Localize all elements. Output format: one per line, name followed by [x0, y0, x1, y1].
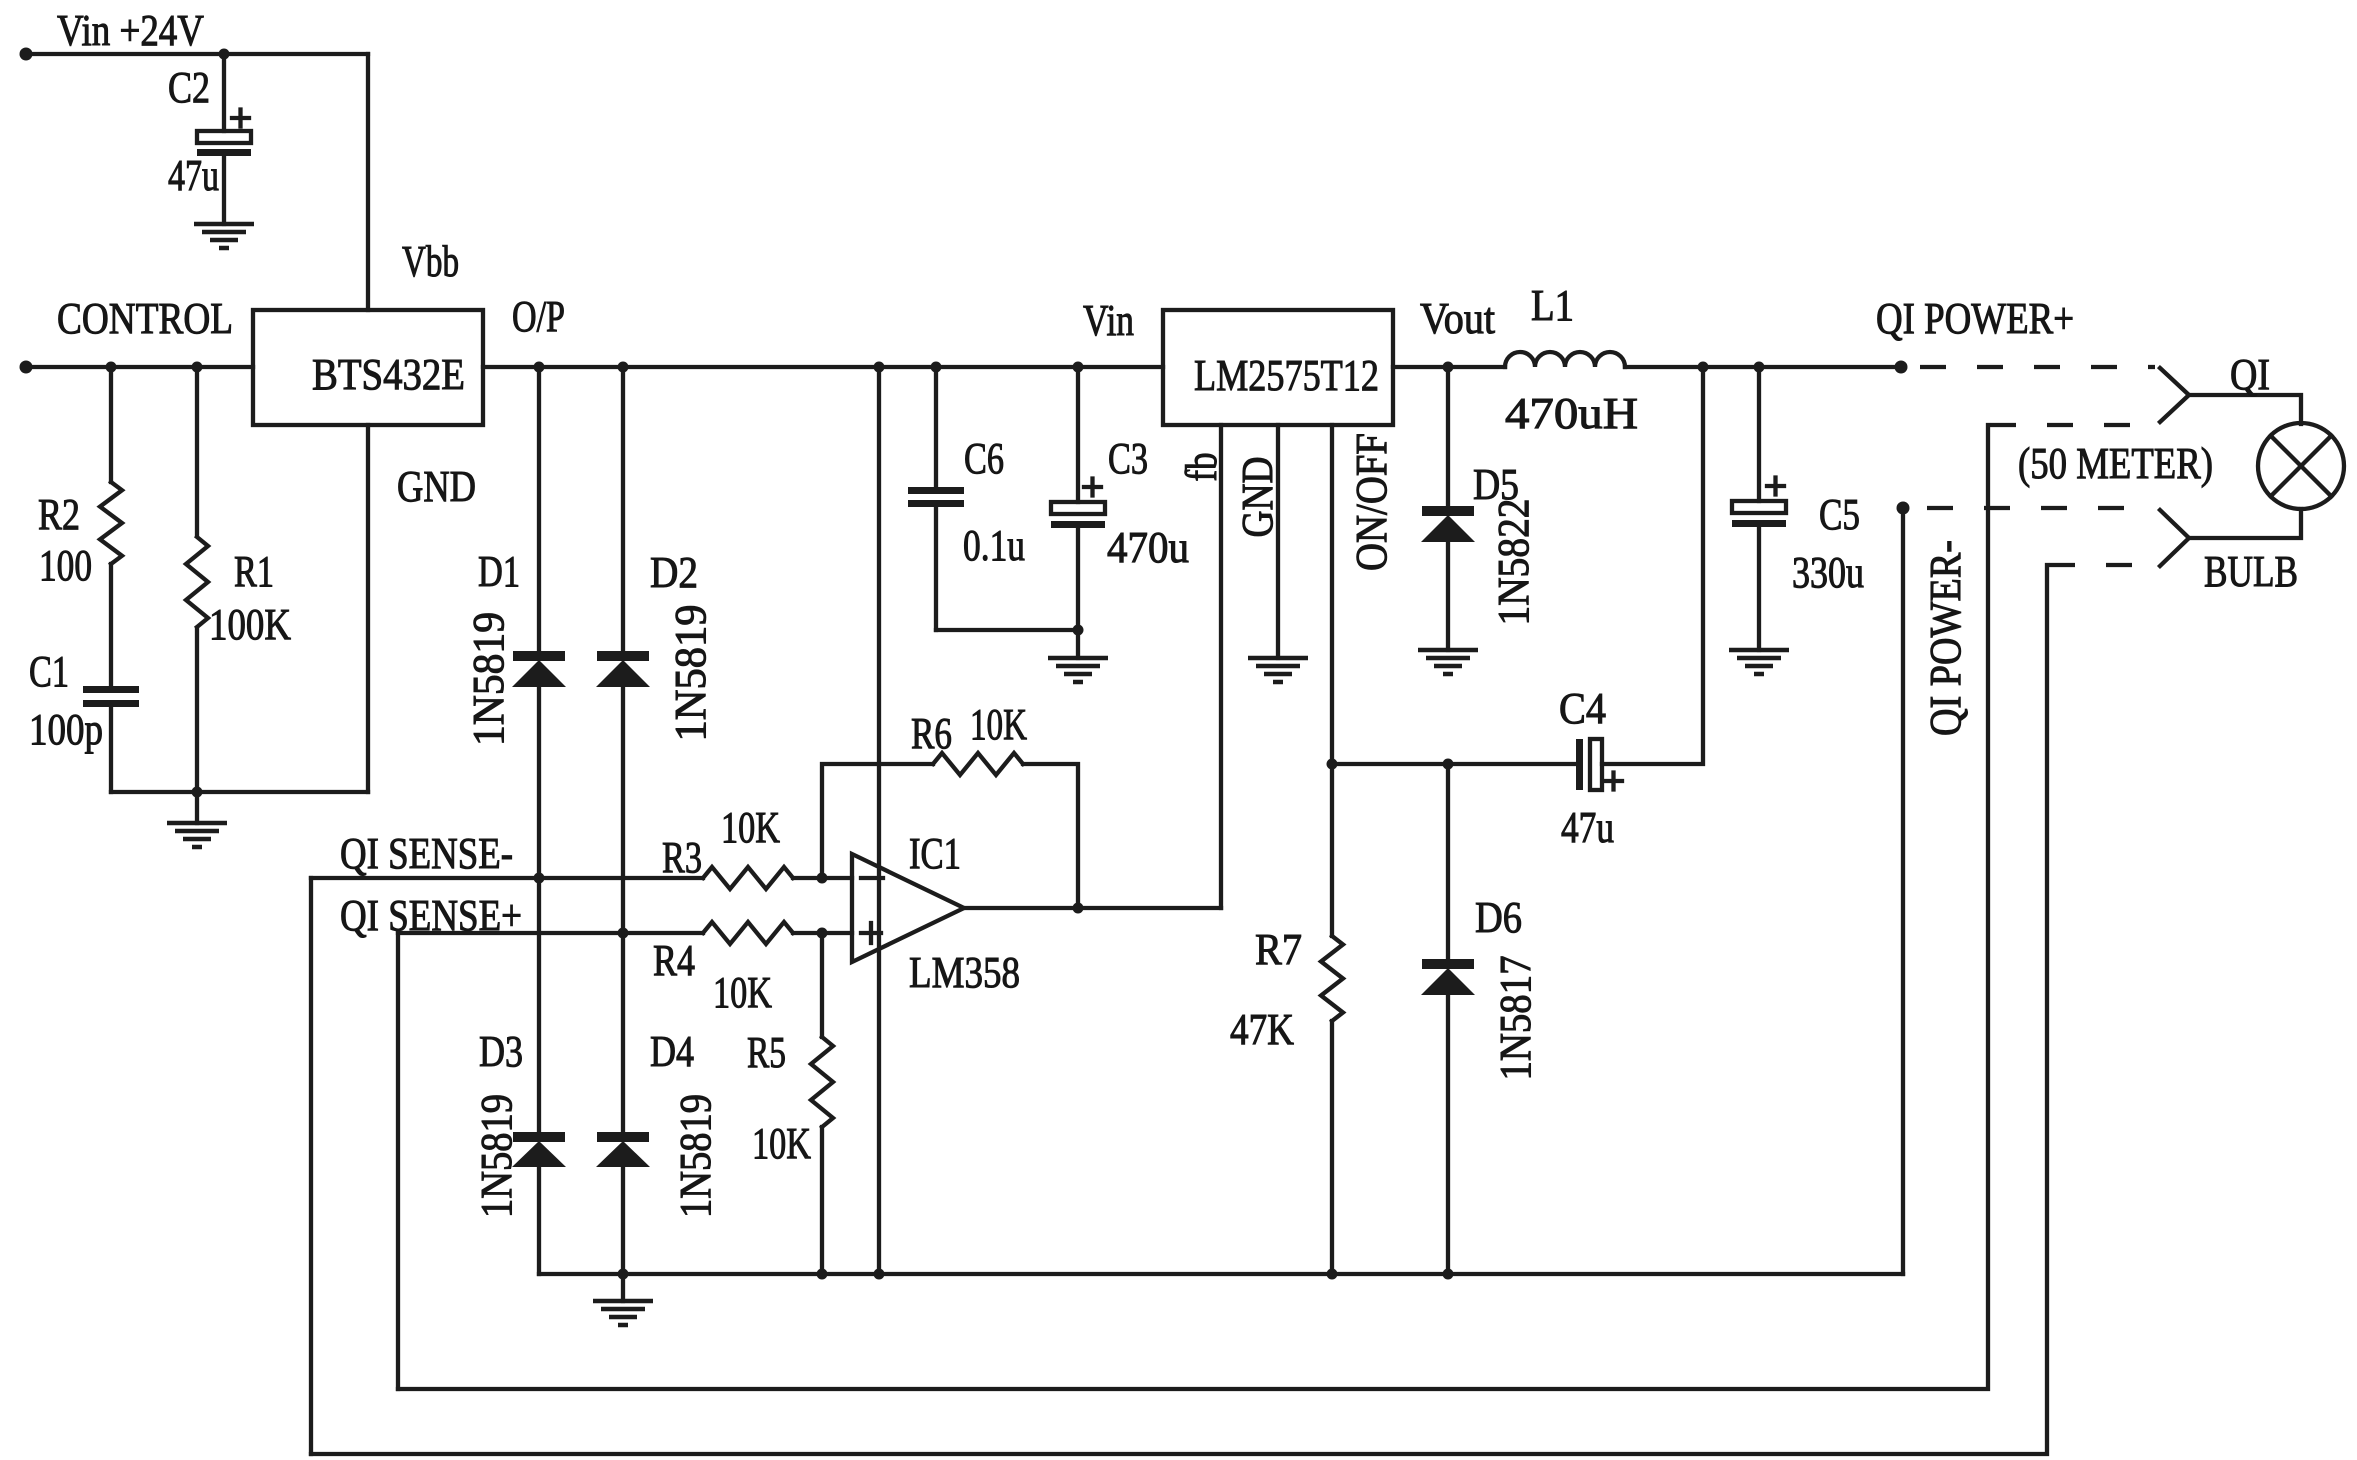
wire — [109, 367, 113, 482]
junction R7 — [1327, 1269, 1338, 1280]
node Vin +24V top rail — [20, 6, 369, 61]
wire — [1446, 367, 1450, 506]
svg-text:0.1u: 0.1u — [963, 521, 1025, 570]
resistor R1 — [186, 367, 291, 792]
diode D2 1N5819 — [596, 367, 715, 1132]
wire — [793, 931, 852, 935]
node QI SENSE- — [311, 829, 703, 884]
wire — [1332, 762, 1576, 766]
svg-text:Vin: Vin — [1083, 296, 1134, 345]
svg-text:C1: C1 — [29, 647, 69, 696]
wire — [195, 628, 199, 792]
terminal Vin+24V — [20, 48, 33, 61]
capacitor C6 — [908, 367, 1078, 630]
svg-text:D3: D3 — [479, 1027, 523, 1076]
resistor R2 — [38, 367, 122, 686]
svg-text:Vbb: Vbb — [402, 237, 459, 286]
capacitor C2 — [168, 54, 251, 224]
wire — [398, 931, 703, 935]
pin GND lead (LM2575) — [1276, 425, 1280, 658]
junction D5 — [1443, 362, 1454, 373]
wire — [820, 933, 824, 1037]
svg-text:470u: 470u — [1107, 523, 1189, 572]
svg-text:C5: C5 — [1819, 490, 1860, 539]
junction C2 tap — [219, 49, 230, 60]
minus input mark — [861, 876, 883, 880]
svg-text:R6: R6 — [911, 709, 952, 758]
junction C6 — [931, 362, 942, 373]
wire — [311, 876, 703, 880]
wire op-amp output — [964, 906, 1221, 910]
wire QI POWER- return — [1901, 508, 1905, 1274]
terminal QI POWER- — [1897, 502, 1910, 515]
wire — [537, 367, 541, 651]
wire ground bus — [539, 1272, 1903, 1276]
svg-text:BTS432E: BTS432E — [312, 350, 465, 399]
junction C4 riser — [1698, 362, 1709, 373]
ground (left rail) — [167, 823, 227, 847]
ground (under C5) — [1729, 650, 1789, 674]
ground (under C3) — [1048, 658, 1108, 682]
wire ground stub — [621, 1274, 625, 1301]
diode D1 1N5819 — [464, 367, 566, 1132]
svg-text:LM358: LM358 — [909, 948, 1020, 997]
capacitor C4 47u — [1332, 367, 1703, 852]
svg-text:R7: R7 — [1255, 925, 1302, 974]
wire dashed QI POWER- — [1927, 506, 2155, 510]
svg-text:QI SENSE-: QI SENSE- — [340, 829, 513, 878]
svg-text:L1: L1 — [1531, 281, 1574, 330]
wire QI pin2 return — [398, 425, 1988, 1389]
svg-text:100: 100 — [39, 541, 92, 590]
C4 plus sign — [1605, 773, 1622, 790]
svg-text:C4: C4 — [1559, 684, 1606, 733]
capacitor C5 330u — [1732, 367, 1864, 650]
svg-text:10K: 10K — [721, 803, 780, 852]
wire left ground rail — [111, 790, 368, 794]
svg-text:47u: 47u — [1561, 803, 1614, 852]
C2 plus sign — [232, 110, 249, 127]
svg-text:IC1: IC1 — [909, 829, 961, 878]
junction sense drop — [874, 1269, 885, 1280]
wire GND pin of BTS432E — [366, 425, 370, 792]
wire — [109, 707, 113, 792]
resistor R3 10K — [662, 803, 852, 889]
wire — [1076, 367, 1080, 502]
wire — [2189, 509, 2301, 538]
C3 plus sign — [1084, 479, 1101, 496]
wire — [1602, 367, 1703, 764]
junction R2 tap — [106, 362, 117, 373]
wire sense drop from bus — [877, 367, 881, 1274]
svg-text:Vout: Vout — [1420, 294, 1495, 343]
junction — [1073, 625, 1084, 636]
svg-text:QI SENSE+: QI SENSE+ — [340, 891, 522, 940]
junction feedback tap — [1073, 903, 1084, 914]
svg-text:CONTROL: CONTROL — [57, 294, 233, 343]
junction C4 rail tap — [1327, 759, 1338, 770]
junction inverting node — [817, 873, 828, 884]
svg-text:R2: R2 — [38, 490, 80, 539]
svg-text:100K: 100K — [209, 600, 291, 649]
wire — [934, 507, 938, 630]
wire — [1446, 764, 1450, 959]
svg-text:GND: GND — [1233, 457, 1282, 538]
wire — [934, 367, 938, 487]
plus input mark — [861, 923, 881, 943]
wire — [1446, 542, 1450, 650]
svg-text:1N5819: 1N5819 — [464, 612, 513, 746]
op-amp IC1 LM358 — [852, 829, 1020, 997]
capacitor C3 — [1051, 367, 1189, 658]
ground (under LM2575 GND) — [1248, 658, 1308, 682]
wire — [1023, 764, 1078, 908]
wire QI SENSE+ left drop — [396, 933, 400, 1389]
svg-text:100p: 100p — [29, 705, 103, 754]
svg-text:GND: GND — [397, 462, 476, 511]
junction non-inverting node — [817, 928, 828, 939]
svg-text:1N5819: 1N5819 — [666, 605, 715, 742]
connector QI — [2160, 350, 2301, 424]
svg-text:1N5819: 1N5819 — [472, 1094, 521, 1218]
wire ground stub — [195, 792, 199, 823]
wire — [1757, 367, 1761, 501]
wire — [1076, 528, 1080, 658]
svg-text:10K: 10K — [713, 968, 772, 1017]
junction R1 tap — [192, 362, 203, 373]
svg-text:47K: 47K — [1230, 1005, 1294, 1054]
wire QI SENSE- left drop — [309, 878, 313, 1454]
svg-text:C3: C3 — [1108, 434, 1148, 483]
lamp BULB symbol — [2258, 423, 2344, 509]
wire BULB pin2 return — [311, 565, 2047, 1454]
connector BULB — [2160, 509, 2301, 596]
capacitor C1 — [29, 647, 139, 792]
svg-text:D4: D4 — [650, 1027, 694, 1076]
svg-text:ON/OFF: ON/OFF — [1347, 433, 1396, 571]
svg-text:QI POWER-: QI POWER- — [1921, 540, 1970, 736]
svg-text:R1: R1 — [234, 547, 274, 596]
wire — [822, 764, 933, 878]
junction — [192, 787, 203, 798]
wire — [222, 54, 226, 131]
resistor R5 10K — [747, 933, 833, 1274]
terminal QI POWER+ — [1895, 361, 1908, 374]
svg-text:D1: D1 — [478, 547, 520, 596]
node CONTROL — [20, 294, 254, 374]
wire — [537, 687, 541, 1132]
wire — [26, 365, 253, 369]
svg-text:BULB: BULB — [2204, 547, 2298, 596]
wire — [1330, 1021, 1334, 1274]
C5 plus sign — [1767, 478, 1784, 495]
wire — [621, 687, 625, 1132]
svg-text:47u: 47u — [168, 151, 219, 200]
wire dashed BULB pin2 — [2049, 563, 2155, 567]
junction R5 — [817, 1269, 828, 1280]
svg-text:Vin +24V: Vin +24V — [57, 6, 204, 55]
junction D1 anode tap — [534, 873, 545, 884]
diode D3 1N5819 — [472, 1027, 566, 1274]
svg-text:C6: C6 — [964, 434, 1004, 483]
diode D6 1N5817 — [1421, 764, 1540, 1274]
svg-text:QI POWER+: QI POWER+ — [1876, 294, 2074, 343]
junction D4 — [618, 1269, 629, 1280]
wire main bus O/P to Vin — [483, 365, 1163, 369]
inductor L1 470uH — [1505, 281, 1638, 438]
junction D6 — [1443, 1269, 1454, 1280]
C2 plus plate — [197, 131, 251, 143]
resistor R6 10K feedback — [822, 700, 1078, 908]
svg-text:R4: R4 — [653, 936, 695, 985]
junction D6 — [1443, 759, 1454, 770]
wire — [222, 156, 226, 224]
svg-text:10K: 10K — [752, 1119, 811, 1168]
svg-text:330u: 330u — [1792, 548, 1864, 597]
junction sense drop — [874, 362, 885, 373]
terminal CONTROL — [20, 361, 33, 374]
junction D2 — [618, 362, 629, 373]
diode D4 1N5819 — [596, 1027, 720, 1274]
wire — [26, 52, 368, 56]
ground (bottom bus) — [593, 1301, 653, 1325]
svg-text:470uH: 470uH — [1505, 389, 1638, 438]
svg-text:1N5822: 1N5822 — [1489, 499, 1538, 626]
svg-text:O/P: O/P — [512, 292, 565, 341]
wire output rail — [1625, 365, 1901, 369]
wire — [621, 1167, 625, 1274]
wire — [1757, 527, 1761, 650]
wire — [936, 628, 1078, 632]
wire — [1446, 995, 1450, 1274]
svg-text:D6: D6 — [1475, 893, 1522, 942]
junction C3 — [1073, 362, 1084, 373]
wire — [2189, 395, 2301, 424]
svg-text:R5: R5 — [747, 1028, 786, 1077]
ground (under C2) — [194, 224, 254, 248]
wire Vout to L1 — [1393, 365, 1505, 369]
svg-text:LM2575T12: LM2575T12 — [1194, 351, 1379, 400]
wire dashed QI pin2 — [1990, 423, 2155, 427]
wire — [537, 1167, 541, 1274]
pin ON/OFF lead — [1330, 425, 1334, 936]
node QI SENSE+ — [340, 891, 703, 940]
C2 minus plate — [197, 149, 251, 156]
svg-text:10K: 10K — [970, 700, 1027, 749]
svg-text:1N5819: 1N5819 — [671, 1094, 720, 1218]
wire — [195, 367, 199, 535]
wire — [109, 564, 113, 686]
svg-text:D2: D2 — [650, 548, 698, 597]
svg-text:R3: R3 — [662, 833, 702, 882]
IC U2 LM2575T12 — [1163, 310, 1393, 425]
svg-text:QI: QI — [2230, 350, 2270, 399]
svg-text:C2: C2 — [168, 63, 210, 112]
resistor R7 47K — [1230, 759, 1343, 1275]
junction C5 — [1754, 362, 1765, 373]
wire — [820, 1127, 824, 1274]
svg-text:fb: fb — [1177, 453, 1226, 482]
junction D1 — [534, 362, 545, 373]
svg-text:(50 METER): (50 METER) — [2018, 439, 2213, 488]
junction D2 anode tap — [618, 928, 629, 939]
IC U1 BTS432E — [253, 310, 483, 425]
wire dashed QI POWER+ — [1920, 365, 2155, 369]
ground (under D5) — [1418, 650, 1478, 674]
wire — [621, 367, 625, 651]
wire — [793, 876, 852, 880]
diode D5 1N5822 — [1421, 367, 1538, 650]
pin fb lead — [1219, 425, 1223, 908]
wire Vbb lead — [366, 54, 370, 310]
resistor R4 10K — [653, 922, 852, 1017]
svg-text:1N5817: 1N5817 — [1491, 956, 1540, 1081]
